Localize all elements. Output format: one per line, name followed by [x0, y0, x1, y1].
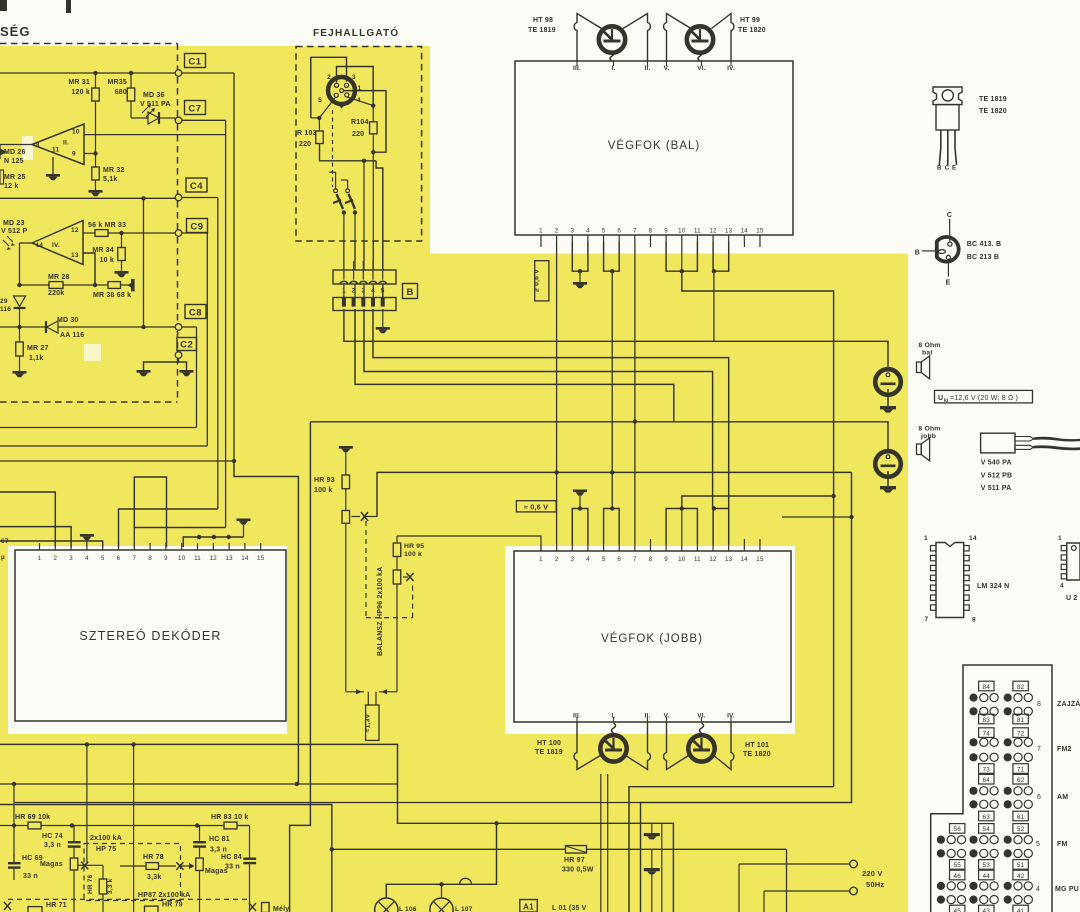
HT98 right wing [623, 14, 650, 62]
wiper upper with arrow [352, 516, 361, 518]
switch contact b [346, 189, 350, 193]
svg-text:4: 4 [371, 288, 375, 295]
svg-text:9: 9 [72, 151, 76, 158]
svg-text:MR35: MR35 [108, 79, 127, 86]
svg-text:FEJHALLGATÓ: FEJHALLGATÓ [313, 26, 399, 39]
svg-text:11: 11 [694, 556, 701, 563]
svg-text:11: 11 [194, 555, 201, 562]
wires JOBB pins9+10+11 join [666, 509, 697, 545]
page-edge crop marks [0, 0, 7, 11]
wire BAL pin8 stub [650, 242, 652, 248]
svg-text:V 512 PB: V 512 PB [981, 472, 1013, 479]
svg-text:L 106: L 106 [399, 906, 417, 912]
lamp L106 [375, 898, 398, 912]
svg-text:1,1k: 1,1k [29, 355, 43, 362]
node C1 net branch [232, 459, 236, 463]
dashed enclosure bottom edge [0, 401, 178, 403]
svg-text:C: C [947, 212, 952, 219]
wire JOBB pin2 up to balance rail [556, 472, 558, 544]
svg-text:C2: C2 [180, 339, 193, 350]
svg-text:61: 61 [1017, 814, 1025, 821]
svg-text:8: 8 [1037, 701, 1041, 708]
HT99 right wing [712, 14, 734, 62]
svg-text:VÉGFOK (JOBB): VÉGFOK (JOBB) [601, 632, 703, 645]
wiper HP75 right with arrow [176, 862, 183, 870]
connector C2 box [177, 338, 197, 351]
svg-text:56: 56 [953, 826, 961, 833]
svg-text:IV.: IV. [52, 242, 60, 249]
svg-text:33 n: 33 n [225, 864, 240, 871]
svg-text:14: 14 [969, 535, 977, 542]
svg-text:B: B [915, 250, 920, 257]
node MR33 MR34 [119, 231, 123, 235]
wire C8 net to left y427 [0, 427, 197, 429]
wiper HP75 left [78, 864, 88, 866]
svg-text:MD 26: MD 26 [4, 149, 26, 156]
svg-text:HC 74: HC 74 [42, 833, 63, 840]
wire DIN pin3 loop [311, 57, 347, 118]
svg-text:44: 44 [983, 873, 991, 880]
svg-text:4: 4 [1060, 583, 1064, 590]
wire decoder pin7 feed [133, 528, 135, 548]
svg-text:10: 10 [178, 555, 186, 562]
node y784 decoder branch [295, 782, 299, 786]
wire BAL output down to speaker line [713, 271, 715, 341]
dashed gang link HP96 [365, 521, 367, 618]
wire speaker bal feed [714, 341, 888, 369]
svg-text:AA 116: AA 116 [60, 332, 84, 339]
svg-text:9: 9 [164, 555, 168, 562]
svg-text:63: 63 [983, 814, 991, 821]
connector point C1 [175, 70, 182, 77]
svg-text:5,1k: 5,1k [103, 176, 117, 183]
wire switch b down [353, 210, 357, 214]
dashed actuator link [332, 110, 334, 187]
svg-text:III.: III. [573, 65, 581, 72]
wiper X bottom right [249, 903, 256, 911]
svg-text:HR 93: HR 93 [314, 477, 335, 484]
svg-text:14: 14 [36, 243, 44, 249]
svg-text:C9: C9 [190, 221, 203, 232]
svg-text:2: 2 [327, 74, 331, 81]
node HC74 [70, 823, 74, 827]
svg-text:14: 14 [241, 555, 249, 562]
svg-text:42: 42 [1017, 873, 1025, 880]
svg-text:84: 84 [983, 684, 991, 691]
svg-text:7: 7 [633, 556, 637, 563]
dashed headphone enclosure [296, 47, 422, 242]
svg-text:8 Ohm: 8 Ohm [918, 342, 940, 349]
svg-text:µ: µ [1, 554, 5, 561]
node MD29 MD30 [17, 325, 21, 329]
switch row 4 MG PU [950, 870, 965, 880]
connector point C8 [175, 324, 182, 331]
svg-text:4: 4 [586, 228, 590, 235]
package V540PA V512PB V511PA [981, 433, 1015, 453]
wire op-amp II pin10 [84, 134, 226, 136]
wire tone feed y744 with jog to y823 [0, 744, 673, 912]
svg-text:L 107: L 107 [455, 906, 473, 912]
wire JOBB pin8 stub [650, 539, 652, 545]
connector C9 box [187, 219, 208, 233]
svg-text:HP87 2x100 kA: HP87 2x100 kA [138, 892, 190, 899]
dashed enclosure right edge with connector points [177, 44, 179, 71]
wire DIN pin5 to R103 [319, 98, 335, 118]
label box >=0,6V [535, 261, 549, 301]
wires JOBB pins12+13 join [713, 509, 729, 545]
ground C2 right [180, 370, 194, 373]
node R104 bottom [371, 150, 375, 154]
wires JOBB pins3+4 join to ground above [572, 509, 588, 545]
wire JOBB pin14 stub [743, 539, 745, 545]
wire C1 net to left y461 [0, 460, 234, 462]
wire x661 down [661, 823, 663, 912]
op-amp II [32, 124, 84, 165]
svg-text:≥ 0,6 V: ≥ 0,6 V [534, 269, 541, 292]
dashed HP87 lower gang [8, 898, 247, 900]
svg-text:116: 116 [0, 306, 11, 313]
wire R103 bottom row [320, 144, 377, 161]
svg-text:100 k: 100 k [404, 551, 422, 558]
speaker socket jobb [875, 451, 901, 477]
switch row 7 FM2 [979, 728, 994, 738]
potentiometer HP96 lower track [393, 570, 401, 584]
ground MR27 [13, 371, 27, 374]
svg-text:54: 54 [983, 826, 991, 833]
svg-text:HR 95: HR 95 [404, 543, 424, 550]
node balance rail five-six [610, 470, 614, 474]
svg-text:6: 6 [617, 228, 621, 235]
svg-text:1: 1 [539, 228, 543, 235]
svg-text:9: 9 [664, 228, 668, 235]
ground JOBB pins3-4 [573, 490, 587, 493]
svg-text:TE 1820: TE 1820 [743, 751, 771, 758]
svg-text:29: 29 [0, 298, 8, 305]
connector point C2 [175, 352, 182, 359]
wire DIN pin4 diagonal [347, 97, 373, 106]
speaker socket bal [875, 369, 901, 395]
svg-text:12: 12 [709, 228, 717, 235]
HT100 right wing [624, 722, 650, 770]
node rail y517 [849, 515, 853, 519]
ground MR34 [115, 271, 129, 274]
svg-text:13: 13 [725, 556, 733, 563]
node MR28 MR38 [93, 283, 97, 287]
svg-text:5: 5 [602, 556, 606, 563]
wire tone verticals [86, 744, 88, 864]
svg-text:12: 12 [210, 555, 218, 562]
svg-text:64: 64 [983, 777, 991, 784]
connector point C4 [175, 194, 182, 201]
ground at HR97 line [651, 849, 653, 868]
wire C4 to trunk [182, 197, 218, 199]
wire op-amp IV input from MD23 [20, 242, 33, 244]
svg-text:4: 4 [85, 555, 89, 562]
svg-text:VI.: VI. [697, 65, 705, 72]
svg-text:12: 12 [71, 227, 79, 234]
HT98 ring [599, 26, 625, 52]
wire op-amp II output to left [0, 144, 32, 146]
connector socket row with hooks [333, 270, 396, 284]
switch row 6 AM [979, 774, 994, 784]
node JOBB pins12-13 [712, 506, 716, 510]
wire balance rail down right [641, 472, 852, 912]
svg-text:C8: C8 [189, 307, 202, 318]
svg-text:ZAJZÁR: ZAJZÁR [1057, 699, 1080, 708]
op-amp IV [32, 221, 83, 265]
svg-text:BC 213 B: BC 213 B [967, 254, 999, 261]
wire C7 net dogleg [134, 477, 225, 547]
svg-text:6: 6 [617, 556, 621, 563]
svg-text:41: 41 [1017, 908, 1025, 912]
svg-text:HP 75: HP 75 [96, 846, 116, 853]
wires BAL pins12+13 join [713, 242, 729, 272]
svg-text:C4: C4 [190, 181, 203, 192]
decoder pins 11-14 bus [183, 537, 243, 547]
label box 1,3V [366, 705, 379, 740]
svg-text:52: 52 [1017, 826, 1025, 833]
wire C8 to trunk [182, 326, 197, 328]
svg-text:1: 1 [342, 288, 346, 295]
wire switch tops [335, 172, 337, 189]
connector C8 box [185, 305, 206, 319]
fuse box A1 [520, 900, 538, 912]
svg-text:ki: ki [944, 398, 949, 404]
resistor HR97 330 0,5W [332, 848, 566, 850]
svg-text:10: 10 [72, 129, 80, 136]
wire C4 net to decoder pin6 [119, 509, 218, 547]
svg-text:SZTEREÓ DEKÓDER: SZTEREÓ DEKÓDER [79, 628, 221, 643]
svg-text:HR 69 10k: HR 69 10k [15, 814, 50, 821]
label B box [403, 284, 418, 299]
wire JOBB pin7 up [634, 422, 636, 545]
lamp L107 [430, 898, 453, 912]
svg-text:7: 7 [1037, 746, 1041, 753]
wire BAL pin7 down [634, 242, 636, 422]
wires BAL pins9+10+11 join [666, 242, 697, 272]
svg-text:MD 36: MD 36 [143, 92, 165, 99]
wire supply rail bottom turn [629, 787, 834, 912]
svg-text:120 k: 120 k [71, 89, 90, 96]
svg-text:71: 71 [1017, 766, 1025, 773]
svg-text:I.: I. [612, 65, 616, 72]
wire supply rail right [682, 271, 834, 787]
svg-text:11: 11 [694, 228, 701, 235]
potentiometer track right [196, 858, 204, 871]
svg-text:11: 11 [52, 147, 59, 154]
node balance pin2 [554, 470, 558, 474]
svg-text:HR 76: HR 76 [87, 874, 94, 894]
svg-text:3,3 n: 3,3 n [210, 847, 227, 854]
resistor MR31 120k [92, 88, 100, 101]
HT98 left wing [574, 14, 601, 62]
wire y806 tone line [0, 805, 332, 912]
pot Mely [262, 903, 270, 912]
svg-text:3: 3 [570, 556, 574, 563]
switch row 5 FM [950, 824, 965, 834]
wire decoder pin2 feed y492 [0, 492, 55, 547]
svg-text:C7: C7 [188, 103, 201, 114]
connector point C7 [175, 117, 182, 124]
svg-text:MR 32: MR 32 [103, 167, 125, 174]
svg-text:4: 4 [1036, 886, 1040, 893]
transistor pinout BC413B BC213B [937, 237, 959, 262]
svg-text:220 V: 220 V [862, 869, 883, 878]
svg-text:14: 14 [741, 228, 749, 235]
svg-text:13: 13 [725, 228, 733, 235]
svg-text:HR 71: HR 71 [46, 902, 67, 909]
wire transistor I drop [600, 774, 602, 912]
node JOBB pins9-11 [680, 506, 684, 510]
svg-text:3: 3 [570, 228, 574, 235]
svg-text:6: 6 [1037, 794, 1041, 801]
potentiometer HP75 left track [70, 858, 78, 870]
wire tone row y825 [0, 825, 249, 827]
svg-text:HT 100: HT 100 [537, 740, 561, 747]
wire C9 net to left y446 [0, 445, 207, 447]
resistor MR32 5,1k [92, 167, 100, 180]
svg-text:220: 220 [299, 141, 311, 148]
ground decoder pin4 [86, 540, 88, 547]
svg-text:V.: V. [664, 65, 670, 72]
svg-text:6: 6 [117, 555, 121, 562]
wiper lower with arrow [403, 576, 408, 578]
wire JOBB supply branch [682, 496, 834, 509]
svg-text:5: 5 [1036, 841, 1040, 848]
wire plug pin2 line [355, 309, 674, 422]
svg-text:62: 62 [1017, 777, 1025, 784]
wire JOBB pin1 to HR95 [397, 536, 541, 551]
svg-text:B: B [937, 165, 942, 172]
wire BAL pin2 long vertical [556, 242, 558, 473]
wire plug pin4 line [373, 309, 729, 509]
dashed gang HP75 [84, 844, 181, 901]
wire JOBB pin15 stub [759, 539, 761, 545]
svg-text:1: 1 [539, 556, 543, 563]
svg-text:FM: FM [1057, 841, 1068, 848]
svg-text:8: 8 [972, 617, 976, 624]
node R103 top [317, 116, 321, 120]
svg-text:3,3 n: 3,3 n [44, 842, 61, 849]
svg-text:bal: bal [922, 350, 932, 357]
svg-text:7: 7 [132, 555, 136, 562]
svg-text:R 103: R 103 [297, 130, 317, 137]
wire plug pin5 to ground [382, 309, 384, 327]
svg-text:74: 74 [983, 730, 991, 737]
svg-text:MG PU: MG PU [1055, 886, 1079, 893]
terminal 220V upper [738, 864, 740, 912]
svg-text:MR 27: MR 27 [27, 345, 49, 352]
svg-text:SÉG: SÉG [0, 24, 30, 39]
svg-text:13: 13 [225, 555, 233, 562]
svg-text:2: 2 [555, 228, 559, 235]
svg-text:TE 1819: TE 1819 [535, 749, 563, 756]
wire plug pin3 line [364, 309, 713, 509]
svg-text:12 k: 12 k [4, 183, 18, 190]
svg-text:R104: R104 [351, 119, 369, 126]
svg-text:HR 97: HR 97 [564, 857, 585, 864]
wire wiper to balance rail [377, 472, 852, 516]
svg-text:2x100 kA: 2x100 kA [90, 835, 122, 842]
svg-text:8: 8 [148, 555, 152, 562]
wire op-amp IV pin13 [83, 253, 95, 285]
connector point C9 [175, 230, 182, 237]
svg-text:9: 9 [664, 556, 668, 563]
svg-text:MR 28: MR 28 [48, 274, 70, 281]
svg-text:53: 53 [983, 862, 991, 869]
svg-text:13: 13 [71, 252, 79, 259]
svg-text:II.: II. [63, 140, 69, 147]
connector C1 box [185, 54, 206, 68]
HT101 right wing [713, 722, 734, 770]
svg-text:3: 3 [361, 288, 365, 295]
wire C1 to trunk [182, 72, 234, 74]
wire switch a down [342, 210, 346, 214]
ground C2 left [137, 370, 151, 373]
svg-text:TE 1819: TE 1819 [528, 27, 556, 34]
node BAL pins9-11 [680, 269, 684, 273]
node R104 top [371, 103, 375, 107]
IC block VEGFOK (JOBB) [514, 551, 791, 722]
wire rail pins5-6 down [611, 271, 613, 508]
svg-text:MD 23: MD 23 [3, 220, 25, 227]
wire decoder pin5 feed y541 [0, 541, 103, 547]
IC block SZTEREO DEKODER [15, 550, 286, 721]
svg-text:12: 12 [709, 556, 717, 563]
svg-text:AM: AM [1057, 794, 1068, 801]
svg-text:C: C [945, 165, 950, 172]
node MR28 left [17, 283, 21, 287]
svg-text:5: 5 [101, 555, 105, 562]
node supply rail junction [831, 494, 835, 498]
HT99 left wing [664, 14, 691, 62]
svg-text:V 512 P: V 512 P [1, 228, 27, 235]
connector bump on lamp bus [460, 878, 472, 884]
wire BAL pin14 stub [743, 242, 745, 248]
BAL bottom pin ticks and numbers [540, 235, 542, 242]
svg-text:67: 67 [1, 538, 9, 545]
svg-text:E: E [946, 280, 951, 287]
svg-text:E: E [952, 165, 956, 172]
svg-text:8: 8 [36, 143, 40, 149]
node speaker jobb line pin7 [633, 419, 637, 423]
svg-text:MR 25: MR 25 [4, 174, 26, 181]
svg-text:5: 5 [318, 97, 322, 104]
ground op-amp II pin11 [52, 157, 54, 174]
wiper X bottom left [4, 902, 11, 910]
wire BAL pin15 stub [759, 242, 761, 248]
node plug pin3 feed [362, 159, 366, 163]
HT99 ring [687, 26, 713, 52]
svg-text:V 511 PA: V 511 PA [981, 485, 1012, 492]
node MR35 top [129, 71, 133, 75]
svg-text:TE 1820: TE 1820 [738, 27, 766, 34]
svg-text:N 125: N 125 [4, 158, 24, 165]
svg-text:73: 73 [983, 766, 991, 773]
wire C1 net branch to balance [234, 461, 298, 784]
wire MD30 row [0, 326, 46, 328]
wire stub y517 [782, 516, 852, 518]
svg-text:FM2: FM2 [1057, 746, 1072, 753]
trunk wire C4 net vertical [217, 198, 219, 510]
wire speaker jobb feed [310, 422, 888, 451]
wire transistor II drop [607, 774, 609, 912]
svg-text:U: U [938, 395, 943, 402]
svg-text:MR 38 68 k: MR 38 68 k [93, 292, 131, 299]
wires C2 to grounds [144, 358, 179, 370]
wire lamp bus [386, 823, 496, 898]
connector C4 box [186, 178, 207, 192]
